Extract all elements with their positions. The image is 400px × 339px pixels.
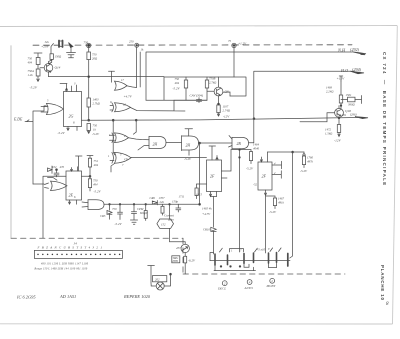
svg-text:1711: 1711 [179,195,185,199]
svg-text:AUTO: AUTO [244,286,254,290]
svg-text:-5.2V: -5.2V [246,167,254,171]
svg-text:5: 5 [47,100,49,103]
svg-text:+20V: +20V [41,45,50,49]
svg-text:L481: L481 [339,113,347,117]
svg-text:481k: 481k [278,201,285,205]
svg-text:+4.7V: +4.7V [202,212,211,216]
svg-text:437: 437 [176,246,181,250]
svg-text:7: 7 [240,250,242,253]
svg-text:1k: 1k [141,48,145,52]
svg-text:2.7kΩ: 2.7kΩ [93,102,101,106]
svg-text:750: 750 [84,41,89,45]
svg-text:250: 250 [129,40,134,44]
svg-text:AD 1A51: AD 1A51 [59,294,76,299]
svg-text:8: 8 [386,302,389,307]
svg-text:22k: 22k [160,200,165,204]
svg-text:2E: 2E [69,193,74,198]
svg-text:150p: 150p [172,200,179,204]
svg-text:H.O: H.O [340,68,348,73]
svg-text:Q6: Q6 [225,90,229,94]
svg-text:1.2k: 1.2k [28,73,34,77]
svg-text:MONT: MONT [266,284,276,288]
svg-text:+12V: +12V [337,77,346,81]
svg-text:CX 724 — BASE DE TEMPS PRINC: CX 724 — BASE DE TEMPS PRINCIPALE [382,52,387,187]
svg-text:-12V: -12V [334,139,342,143]
svg-text:+1.2V: +1.2V [238,42,247,46]
svg-text:E.DE: E.DE [13,118,23,122]
svg-text:-5.2V: -5.2V [173,87,181,91]
svg-text:494: 494 [94,163,99,167]
svg-text:1: 1 [108,155,110,158]
svg-text:1465 4k: 1465 4k [202,207,212,211]
svg-text:+5 x10: +5 x10 [256,248,266,252]
svg-text:-5.2V: -5.2V [300,169,308,173]
svg-text:FBZANCURSTST4321: FBZANCURSTST4321 [37,246,105,250]
svg-text:1k: 1k [93,128,97,132]
svg-text:2.24Ω: 2.24Ω [326,90,334,94]
svg-text:102: 102 [52,165,57,169]
svg-text:REPERE 1020: REPERE 1020 [123,294,151,299]
svg-text:2H: 2H [153,143,158,147]
svg-text:6: 6 [73,121,75,125]
svg-text:2G: 2G [69,114,74,119]
svg-text:2: 2 [271,279,273,283]
svg-text:152: 152 [161,223,166,227]
svg-text:2.74Ω: 2.74Ω [223,109,231,113]
svg-text:750: 750 [112,207,117,211]
svg-text:2H: 2H [186,144,191,148]
svg-text:-12V: -12V [223,115,230,119]
svg-text:-5.2V: -5.2V [115,222,123,226]
svg-text:1.5kΩ: 1.5kΩ [325,132,333,136]
svg-text:Q14: Q14 [55,66,61,70]
svg-text:CR6: CR6 [150,196,156,200]
svg-text:CR5: CR5 [100,214,106,218]
svg-text:1G: 1G [124,157,129,161]
svg-text:2.7kΩ: 2.7kΩ [209,81,217,85]
svg-text:3: 3 [74,83,76,86]
svg-text:J2u: J2u [45,40,50,44]
svg-text:Rouge 150 L 1468 LEM 144 119: Rouge 150 L 1468 LEM 144 1190 901 1100 [34,268,88,271]
svg-text:17: 17 [121,79,124,82]
svg-text:820pF: 820pF [140,211,148,215]
svg-text:202: 202 [155,278,160,282]
svg-text:V: V [268,248,270,251]
svg-text:-6.2V: -6.2V [188,259,196,263]
svg-text:(294): (294) [352,67,362,72]
svg-text:DECL: DECL [217,287,226,291]
svg-text:75: 75 [228,39,232,43]
svg-text:IC 6 2G95: IC 6 2G95 [16,295,36,300]
svg-text:CR10: CR10 [203,228,210,232]
svg-text:2F: 2F [262,174,267,179]
svg-text:1015: 1015 [196,193,203,197]
svg-text:(296): (296) [350,113,357,117]
svg-text:4046: 4046 [253,147,260,151]
svg-text:(292): (292) [350,47,360,52]
svg-text:-52: -52 [253,183,257,187]
svg-text:7: 7 [122,164,124,167]
svg-text:2F: 2F [210,174,215,179]
svg-text:-5.2V: -5.2V [30,86,38,90]
svg-text:-5.2V: -5.2V [269,210,277,214]
svg-text:494: 494 [175,81,180,85]
svg-text:+4.7V: +4.7V [124,95,133,99]
svg-text:494: 494 [93,183,98,187]
svg-text:2B: 2B [237,142,242,146]
svg-text:INHI: INHI [172,260,178,263]
svg-text:2: 2 [224,281,226,285]
svg-text:auto: auto [168,218,174,222]
svg-text:494: 494 [28,61,33,65]
svg-text:-5.2V: -5.2V [94,190,102,194]
svg-text:PLANCHE 10: PLANCHE 10 [380,265,385,301]
svg-text:CAV (304): CAV (304) [190,94,204,98]
svg-text:4: 4 [249,280,251,284]
svg-text:1501: 1501 [346,93,353,97]
svg-text:390Ω: 390Ω [348,103,356,107]
svg-text:5: 5 [120,154,122,157]
svg-text:487k: 487k [307,160,314,164]
svg-text:-5.2V: -5.2V [92,132,100,136]
svg-text:480 101 1206 L LER NHO: 480 101 1206 L LER NHO 1147 L180 [41,263,89,266]
svg-text:-5.2V: -5.2V [184,157,192,161]
svg-text:6: 6 [74,195,76,199]
svg-text:N.H: N.H [337,48,346,53]
svg-text:150Ω: 150Ω [55,55,63,59]
svg-text:-5.2V: -5.2V [58,131,66,135]
svg-text:26Ω: 26Ω [92,57,98,61]
svg-text:470: 470 [60,165,65,169]
svg-text:1: 1 [231,250,233,253]
